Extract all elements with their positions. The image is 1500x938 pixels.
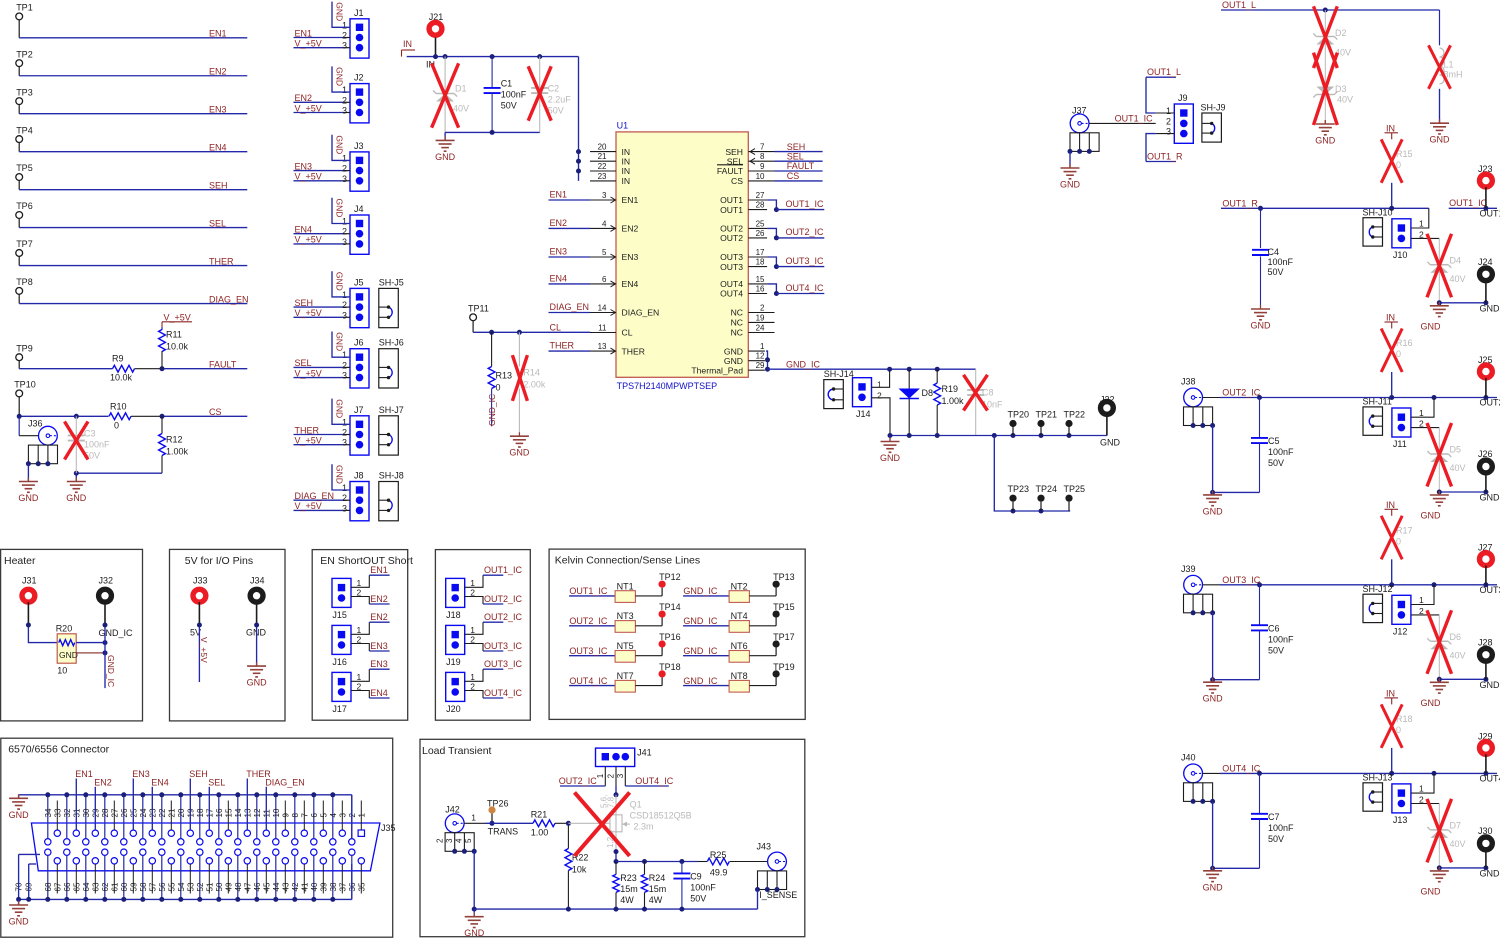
svg-text:GND_IC: GND_IC xyxy=(786,359,821,369)
svg-text:J14: J14 xyxy=(856,409,871,419)
svg-text:TP15: TP15 xyxy=(773,602,795,612)
wire net SEH from U1 xyxy=(775,142,823,152)
svg-text:50V: 50V xyxy=(1268,267,1284,277)
svg-text:GND: GND xyxy=(1430,135,1451,145)
svg-text:J7: J7 xyxy=(354,405,364,415)
wire net EN3 to J3 pin2 xyxy=(294,161,351,171)
svg-text:2: 2 xyxy=(760,303,765,312)
svg-text:28: 28 xyxy=(101,808,110,817)
svg-text:OUT2: OUT2 xyxy=(720,224,743,234)
svg-text:1: 1 xyxy=(1419,595,1424,605)
svg-text:J13: J13 xyxy=(1393,815,1408,825)
svg-text:Load Transient: Load Transient xyxy=(422,745,492,757)
ground under J39 xyxy=(1203,678,1224,704)
svg-text:J2: J2 xyxy=(354,73,364,83)
connector J9 xyxy=(1156,93,1194,143)
svg-text:FAULT: FAULT xyxy=(787,161,815,171)
svg-text:J19: J19 xyxy=(446,657,461,667)
test point TP26 xyxy=(487,798,518,836)
wire net FAULT from U1 xyxy=(775,161,823,171)
diode D1 (DNP) xyxy=(432,57,469,133)
svg-text:C1: C1 xyxy=(501,79,513,89)
svg-text:GND: GND xyxy=(1203,506,1224,516)
connector J35 top pins xyxy=(44,795,367,845)
svg-text:EN1: EN1 xyxy=(295,28,313,38)
svg-text:1: 1 xyxy=(342,350,347,360)
net tie NT2 / test point TP13 xyxy=(683,572,795,602)
svg-text:52: 52 xyxy=(196,882,205,891)
svg-text:10.0k: 10.0k xyxy=(166,342,189,352)
svg-text:1: 1 xyxy=(342,153,347,163)
wire net V_+5V to J1 pin3 xyxy=(294,39,351,49)
svg-text:10: 10 xyxy=(756,172,765,181)
wire net OUT3_IC rail xyxy=(1220,575,1500,595)
svg-text:7: 7 xyxy=(300,813,309,818)
connector J42 xyxy=(435,804,485,854)
svg-text:2: 2 xyxy=(342,164,347,174)
svg-text:63: 63 xyxy=(91,882,100,891)
connector J43 xyxy=(755,842,797,900)
svg-text:GND_IC: GND_IC xyxy=(683,616,718,626)
svg-text:14: 14 xyxy=(598,303,607,312)
svg-text:J38: J38 xyxy=(1181,377,1196,387)
svg-text:CL: CL xyxy=(550,323,562,333)
resistor R14 (DNP) xyxy=(512,332,546,432)
svg-text:EN3: EN3 xyxy=(370,659,388,669)
svg-text:CSD18512Q5B: CSD18512Q5B xyxy=(630,811,692,821)
svg-text:IN: IN xyxy=(1386,313,1395,323)
svg-text:V_+5V: V_+5V xyxy=(295,436,322,446)
svg-text:38: 38 xyxy=(329,882,338,891)
svg-text:DIAG_EN: DIAG_EN xyxy=(265,777,305,787)
svg-text:GND: GND xyxy=(335,465,345,484)
svg-text:TP9: TP9 xyxy=(16,344,33,354)
wire net V_+5V to J4 pin3 xyxy=(294,235,351,245)
test point TP21 xyxy=(1036,410,1058,436)
svg-text:OUT1: OUT1 xyxy=(1480,208,1500,218)
shunt SH-J5 xyxy=(379,277,404,327)
svg-text:OUT3: OUT3 xyxy=(720,252,743,262)
wire net SEL to J6 pin2 xyxy=(294,358,351,368)
svg-text:SEL: SEL xyxy=(295,358,312,368)
connector J10 xyxy=(1392,208,1439,259)
svg-text:2: 2 xyxy=(342,95,347,105)
svg-text:EN4: EN4 xyxy=(209,142,227,152)
svg-text:V_+5V: V_+5V xyxy=(295,235,322,245)
box Heater xyxy=(1,549,143,721)
svg-text:9: 9 xyxy=(760,162,765,171)
svg-text:V_+5V: V_+5V xyxy=(295,172,322,182)
ground under J36 xyxy=(18,478,39,504)
GND label under D7 xyxy=(1421,886,1442,896)
svg-text:EN4: EN4 xyxy=(151,777,169,787)
ground under C3 xyxy=(66,478,87,504)
svg-text:42: 42 xyxy=(291,882,300,891)
svg-text:GND: GND xyxy=(18,493,39,503)
svg-text:OUT4: OUT4 xyxy=(1480,773,1500,783)
svg-text:DIAG_EN: DIAG_EN xyxy=(550,302,590,312)
svg-text:13: 13 xyxy=(598,342,607,351)
power flag V_+5V xyxy=(162,313,192,328)
connector J39 xyxy=(1181,564,1220,616)
svg-text:V_+5V: V_+5V xyxy=(295,501,322,511)
wire net V_+5V to J2 pin3 xyxy=(294,103,351,113)
svg-text:J34: J34 xyxy=(250,576,265,586)
wire D4 to GND jack xyxy=(1437,300,1489,305)
svg-text:Heater: Heater xyxy=(4,555,36,567)
capacitor C6 xyxy=(1251,585,1294,680)
svg-text:J36: J36 xyxy=(28,419,43,429)
svg-text:TP11: TP11 xyxy=(468,303,489,313)
wire GND net of J6 xyxy=(332,332,350,358)
svg-text:J35: J35 xyxy=(381,823,396,833)
test point TP10 xyxy=(14,380,36,417)
connector J35 bottom pins xyxy=(15,849,367,899)
svg-text:2.2uF: 2.2uF xyxy=(548,94,572,104)
wire C3 node to GND xyxy=(75,473,77,481)
svg-text:GND: GND xyxy=(464,928,485,938)
svg-text:5: 5 xyxy=(602,248,607,257)
wire net OUT4_IC rail xyxy=(1220,763,1500,783)
svg-text:2: 2 xyxy=(607,773,616,778)
svg-text:OUT1: OUT1 xyxy=(720,195,743,205)
svg-text:40V: 40V xyxy=(1337,95,1353,105)
svg-text:1: 1 xyxy=(342,20,347,30)
svg-text:16: 16 xyxy=(756,284,765,293)
svg-text:V_+5V: V_+5V xyxy=(295,103,322,113)
svg-text:12: 12 xyxy=(756,352,765,361)
svg-text:TP17: TP17 xyxy=(773,632,795,642)
svg-text:R10: R10 xyxy=(110,402,127,412)
svg-text:IN: IN xyxy=(403,39,412,49)
connector J41 xyxy=(596,748,652,786)
wire D6 to GND jack xyxy=(1437,677,1489,682)
svg-text:SH-J5: SH-J5 xyxy=(379,277,404,287)
resistor R9 xyxy=(19,354,162,383)
svg-text:TP25: TP25 xyxy=(1064,484,1086,494)
svg-text:D4: D4 xyxy=(1450,255,1462,265)
wire net GND_IC from U1 xyxy=(765,351,890,372)
svg-text:15: 15 xyxy=(224,808,233,817)
svg-text:R11: R11 xyxy=(166,330,182,340)
svg-text:1.00k: 1.00k xyxy=(166,447,189,457)
svg-text:EN2: EN2 xyxy=(94,777,112,787)
wire load rail xyxy=(616,859,698,864)
svg-text:3: 3 xyxy=(342,438,347,448)
test point TP4 xyxy=(16,125,33,151)
svg-text:EN4: EN4 xyxy=(295,225,313,235)
wire J36 to GND xyxy=(27,464,29,482)
svg-text:0: 0 xyxy=(496,383,501,393)
svg-text:EN3: EN3 xyxy=(622,252,639,262)
svg-text:CS: CS xyxy=(731,176,743,186)
svg-text:J8: J8 xyxy=(354,471,364,481)
svg-text:1: 1 xyxy=(596,773,605,778)
wire net FAULT xyxy=(160,360,248,372)
svg-text:OUT1_R: OUT1_R xyxy=(1222,198,1258,208)
ground under J42 xyxy=(464,909,485,938)
svg-text:GND: GND xyxy=(1100,438,1121,448)
svg-text:40V: 40V xyxy=(453,103,469,113)
svg-text:40: 40 xyxy=(310,882,319,891)
svg-text:TP5: TP5 xyxy=(16,163,33,173)
connector J8 xyxy=(342,471,369,521)
svg-text:C2: C2 xyxy=(548,83,560,93)
diode D5 (DNP) xyxy=(1427,423,1466,492)
svg-text:GND: GND xyxy=(9,917,30,927)
svg-text:68: 68 xyxy=(44,882,53,891)
svg-text:58: 58 xyxy=(139,882,148,891)
svg-text:EN3: EN3 xyxy=(550,247,568,257)
shunt SH-J8 xyxy=(379,471,404,521)
test point TP22 xyxy=(1064,410,1086,436)
svg-text:J31: J31 xyxy=(22,576,37,586)
svg-text:100nF: 100nF xyxy=(690,882,716,892)
svg-text:EN2: EN2 xyxy=(370,594,388,604)
svg-text:C4: C4 xyxy=(1268,247,1280,257)
connector J12 xyxy=(1392,585,1439,637)
resistor R11 xyxy=(159,327,189,369)
svg-text:NT4: NT4 xyxy=(731,611,748,621)
svg-text:DIAG_EN: DIAG_EN xyxy=(295,491,335,501)
svg-text:I_SENSE: I_SENSE xyxy=(759,890,797,900)
svg-text:CL: CL xyxy=(622,328,633,338)
svg-text:5: 5 xyxy=(319,813,328,818)
connector J32 (black jack) xyxy=(99,576,134,639)
svg-text:25: 25 xyxy=(756,219,765,228)
GND label under D5 xyxy=(1421,511,1442,521)
connector J13 xyxy=(1392,773,1439,825)
diode D8 xyxy=(899,369,934,435)
svg-text:V_+5V: V_+5V xyxy=(295,368,322,378)
svg-text:SEH: SEH xyxy=(787,142,806,152)
svg-text:22: 22 xyxy=(598,162,607,171)
svg-text:GND: GND xyxy=(880,453,901,463)
wire net OUT4_IC at J41 xyxy=(625,776,673,786)
ground under L1 xyxy=(1430,119,1451,145)
svg-text:OUT1_IC: OUT1_IC xyxy=(1115,113,1154,123)
svg-text:1: 1 xyxy=(877,380,882,390)
resistor R17 (DNP) xyxy=(1381,516,1412,585)
svg-text:EN2: EN2 xyxy=(370,612,388,622)
svg-text:OUT2_IC: OUT2_IC xyxy=(1222,388,1261,398)
net tie NT5 / test point TP16 xyxy=(569,632,681,662)
connector J2 xyxy=(342,73,369,123)
svg-text:GND: GND xyxy=(1421,698,1442,708)
svg-text:2: 2 xyxy=(435,838,444,843)
svg-text:J42: J42 xyxy=(445,804,460,814)
wire GND net of J3 xyxy=(332,135,350,161)
shunt SH-J13 xyxy=(1363,772,1393,811)
svg-text:15m: 15m xyxy=(649,884,667,894)
svg-text:TP18: TP18 xyxy=(659,662,681,672)
svg-text:1: 1 xyxy=(1419,408,1424,418)
svg-text:SEH: SEH xyxy=(209,180,228,190)
svg-text:10: 10 xyxy=(57,666,67,676)
svg-text:29: 29 xyxy=(756,361,765,370)
svg-text:1: 1 xyxy=(1419,219,1424,229)
svg-text:CS: CS xyxy=(209,407,222,417)
wire net THER to U1 xyxy=(549,341,591,351)
wire bottom GND rail xyxy=(474,890,757,912)
svg-text:3: 3 xyxy=(342,310,347,320)
connector J20 xyxy=(446,659,523,714)
svg-text:100nF: 100nF xyxy=(501,90,527,100)
svg-text:C9: C9 xyxy=(690,871,702,881)
svg-text:GND: GND xyxy=(335,332,345,351)
svg-text:C8: C8 xyxy=(982,388,994,398)
ground under J34 xyxy=(247,662,268,688)
svg-text:NC: NC xyxy=(731,318,743,328)
net tie NT6 / test point TP17 xyxy=(683,632,795,662)
connector J14 xyxy=(853,369,891,435)
svg-text:64: 64 xyxy=(82,882,91,891)
connector J36 xyxy=(19,416,57,466)
connector J4 xyxy=(342,204,369,254)
wire net DIAG_EN to U1 xyxy=(549,302,591,312)
svg-text:J9: J9 xyxy=(1178,93,1188,103)
svg-text:D3: D3 xyxy=(1335,84,1347,94)
svg-text:21: 21 xyxy=(598,152,607,161)
wire net THER to J35 xyxy=(246,769,271,830)
svg-text:44: 44 xyxy=(272,882,281,891)
svg-text:EN1: EN1 xyxy=(209,29,227,39)
svg-text:1: 1 xyxy=(342,417,347,427)
svg-text:CS: CS xyxy=(787,171,800,181)
svg-text:57: 57 xyxy=(148,882,157,891)
svg-text:3: 3 xyxy=(342,106,347,116)
svg-text:EN2: EN2 xyxy=(295,93,313,103)
svg-text:4: 4 xyxy=(329,813,338,818)
wire net OUT4_IC from U1 xyxy=(767,283,824,296)
svg-text:10.0k: 10.0k xyxy=(110,373,133,383)
svg-text:12: 12 xyxy=(253,808,262,817)
svg-text:46: 46 xyxy=(253,882,262,891)
svg-text:2: 2 xyxy=(342,428,347,438)
svg-text:OUT2_IC: OUT2_IC xyxy=(569,616,608,626)
svg-text:D5: D5 xyxy=(1450,445,1462,455)
ground under D4 xyxy=(1430,302,1449,317)
connector J15 xyxy=(332,565,390,620)
svg-text:V_+5V: V_+5V xyxy=(199,637,209,663)
net tie NT4 / test point TP15 xyxy=(683,602,795,632)
svg-text:EN2: EN2 xyxy=(209,67,227,77)
svg-text:SH-J14: SH-J14 xyxy=(824,369,854,379)
svg-text:OUT3: OUT3 xyxy=(1480,585,1500,595)
test point TP1 xyxy=(16,3,33,38)
svg-text:EN1: EN1 xyxy=(550,190,568,200)
ground under D6 xyxy=(1430,678,1449,693)
svg-text:OUT1: OUT1 xyxy=(720,205,743,215)
svg-text:SEL: SEL xyxy=(209,218,226,228)
svg-text:GND: GND xyxy=(1421,511,1442,521)
svg-text:6570/6556 Connector: 6570/6556 Connector xyxy=(8,744,109,756)
diode D3 (DNP) xyxy=(1313,53,1353,125)
connector J1 xyxy=(342,8,369,58)
svg-text:51: 51 xyxy=(205,882,214,891)
wire IN to U1 xyxy=(576,57,581,181)
wire net SEH xyxy=(19,180,247,190)
test point TP8 xyxy=(16,277,33,303)
svg-text:TP12: TP12 xyxy=(659,572,681,582)
svg-text:SEH: SEH xyxy=(189,769,208,779)
wire net OUT1_R at J9 xyxy=(1146,134,1183,162)
svg-text:NT8: NT8 xyxy=(731,671,748,681)
svg-text:NT6: NT6 xyxy=(731,641,748,651)
wire J42 to GND rail xyxy=(472,851,477,911)
svg-text:EN4: EN4 xyxy=(370,688,388,698)
svg-text:SH-J6: SH-J6 xyxy=(379,338,404,348)
connector J28 (black jack) xyxy=(1478,637,1500,690)
svg-text:1: 1 xyxy=(342,483,347,493)
svg-text:J4: J4 xyxy=(354,204,364,214)
svg-text:23: 23 xyxy=(598,172,607,181)
diode D6 (DNP) xyxy=(1427,610,1466,679)
wire net OUT2_IC from U1 xyxy=(767,227,824,240)
test point TP23 xyxy=(1008,484,1030,511)
svg-text:OUT3_IC: OUT3_IC xyxy=(484,659,523,669)
wire net OUT1_L top xyxy=(1221,0,1440,13)
svg-text:R12: R12 xyxy=(166,435,183,445)
shunt SH-J14 xyxy=(824,369,854,408)
svg-text:3: 3 xyxy=(342,237,347,247)
svg-text:GND: GND xyxy=(59,650,78,660)
connector J7 xyxy=(342,405,369,455)
svg-text:GND: GND xyxy=(66,493,87,503)
svg-text:26: 26 xyxy=(120,808,129,817)
svg-text:NT1: NT1 xyxy=(617,581,634,591)
wire J37 to GND xyxy=(1069,151,1071,168)
svg-text:NC: NC xyxy=(731,328,743,338)
svg-text:7: 7 xyxy=(760,143,765,152)
svg-text:GND_IC: GND_IC xyxy=(683,586,718,596)
svg-text:J5: J5 xyxy=(354,277,364,287)
box EN Short xyxy=(312,550,413,721)
wire net OUT1_IC J37 to J9 xyxy=(1089,113,1156,123)
svg-text:IN: IN xyxy=(1386,500,1395,510)
svg-text:43: 43 xyxy=(281,882,290,891)
net tie NT3 / test point TP14 xyxy=(569,602,681,632)
svg-text:GND_IC: GND_IC xyxy=(106,655,116,687)
svg-text:40V: 40V xyxy=(1450,463,1466,473)
svg-text:22: 22 xyxy=(158,808,167,817)
connector J27 (red jack) xyxy=(1478,543,1493,585)
svg-text:Thermal_Pad: Thermal_Pad xyxy=(691,365,743,375)
svg-text:EN2: EN2 xyxy=(622,224,639,234)
svg-text:41: 41 xyxy=(300,882,309,891)
wire net OUT1_R rail xyxy=(1221,198,1429,211)
wire net V_+5V to J8 pin3 xyxy=(294,501,351,511)
connector J22 (black jack) xyxy=(1100,394,1121,447)
svg-text:TP14: TP14 xyxy=(659,602,681,612)
svg-text:GND: GND xyxy=(435,152,456,162)
svg-text:OUT3_IC: OUT3_IC xyxy=(1222,575,1261,585)
wire net EN4 to U1 xyxy=(549,274,591,284)
svg-text:100nF: 100nF xyxy=(1268,257,1294,267)
svg-text:TP10: TP10 xyxy=(14,380,36,390)
ground at J35 top left xyxy=(9,794,30,820)
ground under D5 xyxy=(1430,491,1449,506)
svg-text:R24: R24 xyxy=(649,873,666,883)
test point TP20 xyxy=(1008,410,1030,436)
svg-text:OUT2: OUT2 xyxy=(1480,398,1500,408)
shunt SH-J6 xyxy=(379,338,404,388)
resistor R19 xyxy=(934,369,964,435)
wire net EN1 to J35 xyxy=(75,769,93,830)
svg-text:GND: GND xyxy=(335,2,345,21)
svg-text:1: 1 xyxy=(471,812,476,822)
svg-text:2: 2 xyxy=(357,681,362,691)
